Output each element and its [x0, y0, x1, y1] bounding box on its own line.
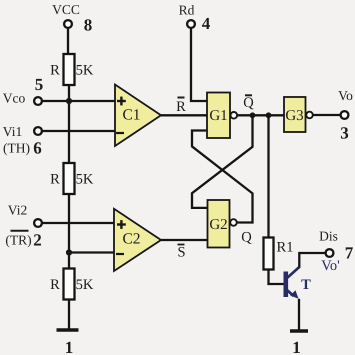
svg-text:8: 8 [84, 16, 93, 35]
svg-text:5K: 5K [76, 277, 94, 293]
svg-text:4: 4 [202, 14, 211, 33]
svg-text:R: R [176, 99, 186, 115]
svg-text:R1: R1 [277, 240, 294, 256]
svg-text:T: T [301, 277, 311, 293]
svg-text:5K: 5K [76, 172, 94, 188]
svg-text:R: R [50, 172, 60, 188]
svg-text:(TR): (TR) [5, 232, 31, 247]
svg-text:Vco: Vco [3, 91, 26, 106]
svg-text:C2: C2 [122, 231, 140, 248]
svg-text:5K: 5K [76, 63, 94, 79]
svg-text:G3: G3 [285, 108, 303, 124]
svg-text:G2: G2 [209, 217, 227, 233]
svg-text:7: 7 [345, 244, 354, 263]
svg-text:3: 3 [340, 124, 349, 143]
svg-text:Q: Q [243, 95, 254, 111]
svg-text:Rd: Rd [179, 3, 195, 18]
svg-text:6: 6 [33, 139, 42, 158]
svg-text:5: 5 [35, 75, 44, 94]
svg-text:Vo': Vo' [321, 258, 339, 274]
svg-text:1: 1 [292, 338, 301, 355]
svg-text:Vi1: Vi1 [3, 124, 22, 139]
svg-text:G1: G1 [209, 108, 227, 124]
svg-text:S: S [177, 245, 185, 261]
svg-text:(TH): (TH) [3, 141, 30, 156]
svg-text:R: R [50, 277, 60, 293]
svg-text:2: 2 [33, 231, 42, 250]
svg-text:Q: Q [241, 230, 252, 246]
svg-text:Vo: Vo [338, 88, 353, 103]
svg-text:Dis: Dis [319, 229, 338, 244]
svg-text:VCC: VCC [52, 2, 80, 17]
svg-text:Vi2: Vi2 [8, 203, 27, 218]
svg-text:R: R [50, 63, 60, 79]
svg-text:1: 1 [65, 338, 74, 355]
svg-text:C1: C1 [122, 107, 140, 124]
